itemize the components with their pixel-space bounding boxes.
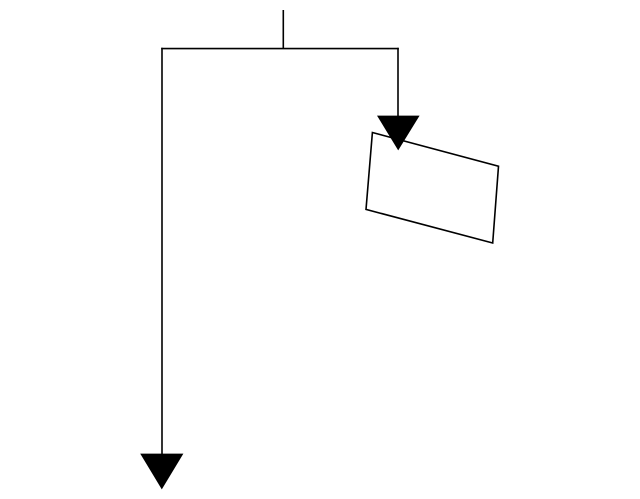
arrowhead: right arrow into rectangle <box>377 116 420 151</box>
node: tilted rectangle <box>366 133 499 244</box>
wire: right vertical drop <box>397 48 399 116</box>
wire: top vertical stub <box>282 10 284 49</box>
wire: left vertical drop <box>161 48 163 454</box>
arrowhead: bottom arrow <box>140 454 183 490</box>
wire: horizontal bus <box>161 48 399 50</box>
